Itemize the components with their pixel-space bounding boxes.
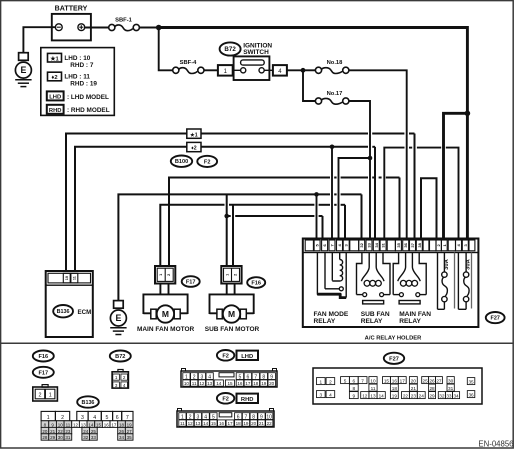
wire bus down to relay holder pin 3 [466,113,469,239]
svg-text:29: 29 [50,435,56,440]
svg-text:E: E [20,65,26,75]
svg-text:4: 4 [93,415,96,421]
svg-text:13: 13 [207,381,213,386]
junction dot ground net to pin 5 [314,192,319,197]
wire ground net branch to pin 5 [316,194,318,239]
svg-text:22: 22 [403,393,409,398]
junction dot at battery bus [156,25,162,31]
svg-text:♦2: ♦2 [191,146,197,152]
svg-text:18: 18 [236,421,242,426]
svg-text:2: 2 [123,375,126,380]
svg-text:11: 11 [72,276,76,280]
svg-text:34: 34 [453,393,459,398]
relay K3 main fan relay [393,253,426,304]
svg-text:6: 6 [116,415,119,421]
svg-text:2: 2 [39,393,42,399]
relay K1 fan mode relay - contact [325,253,343,291]
svg-text:F16: F16 [38,354,48,360]
svg-text:: RHD MODEL: : RHD MODEL [67,107,110,114]
svg-text:F17: F17 [38,370,48,376]
svg-text:3: 3 [319,392,322,397]
svg-text:M: M [228,309,235,319]
main fan motor connector F17 [155,266,175,284]
wire ignition switch pin4 to junction [287,69,303,71]
wire battery - to ground E [23,27,55,53]
svg-text:15: 15 [227,381,233,386]
svg-text:2: 2 [234,274,238,276]
svg-text:30: 30 [448,378,454,383]
svg-text:23: 23 [65,429,71,434]
svg-text:31: 31 [381,242,386,247]
svg-text:15: 15 [384,378,390,383]
svg-text:30: 30 [58,435,64,440]
svg-text:★1: ★1 [190,132,198,138]
svg-text:RHD : 19: RHD : 19 [70,81,97,88]
oval label F16 [247,277,265,288]
svg-text:19: 19 [261,381,267,386]
svg-text:6: 6 [246,374,249,380]
svg-text:24: 24 [83,429,89,434]
svg-text:8: 8 [262,374,265,380]
connector pinout B72 [112,370,128,389]
oval label F27 (schematic) [486,312,505,323]
svg-text:26: 26 [119,429,125,434]
svg-text:LHD: LHD [241,354,253,360]
svg-text:A/C RELAY HOLDER: A/C RELAY HOLDER [365,335,423,341]
label box LHD [237,351,259,361]
svg-text:5: 5 [106,415,109,421]
jumper wire pin 38 to fuse pin 2 [421,178,437,239]
svg-text:9: 9 [270,374,273,380]
svg-text:24: 24 [419,393,425,398]
svg-text:1: 1 [181,414,184,420]
svg-text:B136: B136 [82,400,95,406]
svg-text:29: 29 [429,393,435,398]
svg-text:RHD: RHD [241,397,254,403]
svg-text:10: 10 [184,381,190,386]
svg-text:1: 1 [226,274,230,276]
svg-text:9: 9 [352,393,355,398]
svg-text:SWITCH: SWITCH [243,49,269,56]
relay K2 sub fan relay [357,253,391,304]
relay K1 fan mode relay - armature [317,253,346,298]
svg-text:36: 36 [468,392,474,397]
svg-text:EN-04856: EN-04856 [478,439,513,448]
connector pinout F2 RHD [177,409,274,428]
svg-text:B72: B72 [115,354,125,360]
wire sub fan connector to motor [210,284,254,315]
svg-text:17: 17 [227,421,233,426]
ignition switch connector pin 4 [273,65,287,76]
svg-text:17: 17 [400,378,406,383]
battery B1 [52,4,91,40]
oval label B72 (pinout) [110,351,131,362]
fuse No.18 [315,67,349,73]
wire stub in relay holder 2 [471,253,473,309]
wire bus branch to relay holder pin 1 [444,113,468,239]
svg-text:14: 14 [379,393,385,398]
label MAIN FAN RELAY [399,311,431,325]
wire junction to fuse No.18 [303,69,315,71]
svg-text:: LHD MODEL: : LHD MODEL [67,94,109,101]
jumper wire pin 31 to fuse pin 4 [384,148,458,240]
svg-text:19: 19 [243,421,249,426]
svg-text:16: 16 [104,422,110,427]
separator line between schematic and connector views [1,342,514,344]
svg-text:20: 20 [269,381,275,386]
oval label F17 (pinout) [33,367,54,378]
svg-text:F17: F17 [186,280,196,286]
svg-text:1: 1 [185,374,188,380]
connector pinout F16/F17 [33,385,58,401]
svg-text:12: 12 [362,393,368,398]
junction dot after ignition switch [301,68,306,73]
svg-text:SBF-1: SBF-1 [115,18,133,24]
svg-text:17: 17 [111,422,117,427]
wire net B branch to pin 7 [331,147,333,240]
svg-text:31: 31 [65,435,71,440]
svg-text:7: 7 [126,415,129,421]
svg-text:6: 6 [352,378,355,383]
svg-text:1: 1 [115,375,118,380]
svg-text:1: 1 [47,415,50,421]
wire SBF-1 to junction [139,27,158,29]
svg-text:5: 5 [239,374,242,380]
svg-text:22: 22 [58,429,64,434]
svg-text:SUB FAN: SUB FAN [361,311,390,318]
svg-text:34: 34 [119,435,125,440]
svg-text:11: 11 [66,422,71,427]
label box RHD [237,394,259,404]
svg-text:2: 2 [329,379,332,384]
svg-text:FAN MODE: FAN MODE [314,311,349,318]
wire stub in relay holder 1 [454,253,456,309]
svg-text:★1: ★1 [50,55,59,62]
svg-text:1: 1 [49,393,52,399]
wire ground E to relay holder pin 32 (ground net) [118,194,361,300]
oval label F2 RHD (pinout) [217,393,234,404]
wire No.18 to relay holder pin 36 (down at x=406.7) [349,70,407,239]
svg-text:4: 4 [208,374,211,380]
svg-text:18: 18 [119,422,125,427]
svg-text:B136: B136 [57,309,70,315]
svg-text:18: 18 [253,381,259,386]
svg-text:13: 13 [370,393,376,398]
wire main fan connector to motor [143,284,187,315]
battery + terminal [78,24,85,31]
svg-text:21: 21 [259,421,265,426]
svg-text:25: 25 [423,378,429,383]
svg-text:ECM: ECM [78,309,92,316]
junction dot right bus [465,111,471,117]
svg-text:E: E [115,313,121,323]
svg-text:7: 7 [245,414,248,420]
svg-text:20: 20 [251,421,257,426]
svg-text:19: 19 [392,393,398,398]
svg-text:11: 11 [192,381,197,386]
svg-text:14: 14 [88,422,94,427]
ground E (ECM side) [110,301,126,335]
main battery bus wire (top and right) [159,28,468,114]
svg-text:2: 2 [167,274,171,276]
svg-text:No.17: No.17 [327,91,343,97]
svg-text:7: 7 [361,378,364,383]
svg-text:28: 28 [429,386,435,391]
svg-text:3: 3 [201,374,204,380]
svg-text:11: 11 [371,386,376,391]
wire No.17 to relay holder pin 33 [349,101,370,240]
label SUB FAN RELAY [361,311,390,325]
svg-text:38: 38 [417,242,422,247]
svg-text:13: 13 [81,422,87,427]
svg-text:B100: B100 [175,159,188,165]
oval label B100 [171,156,192,167]
oval label B135 (pinout) [77,396,99,407]
sub fan motor connector F16 [221,266,241,284]
relay holder connector strip [303,239,479,253]
wire SBF-4 to ignition switch pin 1 [204,69,218,71]
svg-text:32: 32 [83,435,89,440]
svg-text:4: 4 [329,392,332,397]
svg-text:32: 32 [359,242,364,247]
svg-text:SBF-4: SBF-4 [180,60,198,66]
fuse No.17 [315,98,349,104]
svg-text:10: 10 [65,276,69,280]
label box *2 on wire [187,142,201,151]
svg-text:34: 34 [374,242,379,247]
svg-text:4: 4 [123,383,126,388]
svg-text:9: 9 [260,414,263,420]
svg-text:22: 22 [267,421,273,426]
wire No.17 branch to pin 4 of fan mode relay [339,158,371,240]
svg-text:17: 17 [245,381,251,386]
svg-text:16: 16 [219,421,225,426]
svg-text:RELAY: RELAY [361,318,383,325]
wire junction down to fuse No.17 [303,70,315,101]
svg-text:33: 33 [367,242,372,247]
svg-text:10: 10 [370,378,376,383]
svg-text:12: 12 [199,381,205,386]
svg-text:F27: F27 [491,316,500,322]
svg-text:25: 25 [91,429,97,434]
svg-text:RELAY: RELAY [399,318,421,325]
oval label B72 (ignition switch) [220,42,241,55]
svg-text:No.18: No.18 [327,60,344,66]
svg-text:10: 10 [58,422,64,427]
connector pinout B135 [41,411,133,440]
svg-text:8: 8 [252,414,255,420]
svg-text:20: 20 [42,429,48,434]
oval label F16 (pinout) [33,351,54,362]
svg-text:F2: F2 [222,353,229,359]
svg-text:23: 23 [411,393,417,398]
svg-text:31: 31 [448,386,454,391]
ground E (battery) [15,53,31,87]
wire ECM pin *2 to sub fan relay coil pin 34 (net B) [75,147,375,271]
svg-text:F2: F2 [204,159,211,165]
svg-text:28: 28 [42,435,48,440]
relay holder pin cells [305,240,475,251]
wire main fan motor - / sub fan motor + to pin 3 (net H5) [160,205,345,266]
svg-text:BATTERY: BATTERY [55,4,88,12]
label IGNITION SWITCH [243,43,272,57]
svg-text:RHD: RHD [49,108,62,114]
svg-text:RELAY: RELAY [314,318,336,325]
wire ECM pin *1 to main fan relay coil pin 37 (net A) [66,134,415,272]
relay K1 fan mode relay - coil [332,253,342,282]
svg-text:8: 8 [352,386,355,391]
wire bus to SBF-4 [159,28,173,71]
oval label F2 LHD (pinout) [217,350,234,361]
svg-text:18: 18 [392,386,398,391]
svg-text:11: 11 [180,421,185,426]
svg-text:5: 5 [212,414,215,420]
svg-text:F16: F16 [251,281,261,287]
svg-text:MAIN FAN MOTOR: MAIN FAN MOTOR [137,326,195,333]
svg-text:12: 12 [188,421,194,426]
junction dot sub fan ground branch [224,214,229,219]
svg-text:30A: 30A [444,258,450,269]
svg-text:5: 5 [344,378,347,383]
oval label F17 [182,276,200,287]
svg-text:F2: F2 [222,396,229,402]
fuse F30A-2 in relay holder [458,253,471,310]
svg-text:15: 15 [211,421,217,426]
svg-text:27: 27 [436,378,442,383]
svg-text:36: 36 [403,242,408,247]
battery - terminal [55,24,62,31]
svg-text:6: 6 [237,414,240,420]
svg-text:14: 14 [203,421,209,426]
svg-text:35: 35 [127,435,133,440]
svg-text:16: 16 [392,378,398,383]
svg-text:21: 21 [411,386,417,391]
fuse SBF-4 [173,67,204,73]
svg-text:10: 10 [266,414,272,420]
svg-text:LHD: LHD [49,95,61,101]
label box *1 on wire [187,129,201,138]
svg-text:♦2: ♦2 [51,75,57,81]
svg-text:14: 14 [216,381,222,386]
svg-text:16: 16 [237,381,243,386]
svg-text:1: 1 [159,274,163,276]
svg-text:B72: B72 [224,46,236,53]
svg-text:21: 21 [50,429,56,434]
svg-text:32: 32 [439,393,445,398]
svg-text:37: 37 [410,242,415,247]
svg-text:35: 35 [396,242,401,247]
fuse F30A-1 in relay holder [438,253,450,310]
svg-text:30A: 30A [466,258,472,269]
svg-text:7: 7 [254,374,257,380]
svg-text:3: 3 [81,415,84,421]
svg-text:3: 3 [115,383,118,388]
svg-text:1: 1 [319,379,322,384]
wire sub fan motor - to ground net and pin 6 (net H6) [227,194,323,266]
svg-text:M: M [162,309,169,319]
svg-text:35: 35 [468,379,474,384]
junction dot net B to fan mode relay coil [330,145,335,150]
svg-text:20: 20 [411,378,417,383]
svg-text:2: 2 [193,374,196,380]
label FAN MODE RELAY [314,311,349,325]
svg-text:4: 4 [204,414,207,420]
motor M1 main fan [151,305,180,322]
svg-text:2: 2 [61,415,64,421]
oval label F2 [197,156,217,167]
legend note box [41,48,115,116]
svg-text:13: 13 [195,421,201,426]
svg-text:SUB FAN MOTOR: SUB FAN MOTOR [205,326,260,333]
svg-text:27: 27 [127,429,133,434]
fuse SBF-1 [109,24,140,30]
svg-text:F27: F27 [389,356,399,362]
svg-text:33: 33 [446,393,452,398]
svg-text:15: 15 [96,422,102,427]
svg-text:33: 33 [91,435,97,440]
wire main fan motor + to pin 35 (net C) [169,178,400,267]
svg-text:3: 3 [197,414,200,420]
wire battery + to SBF-1 [85,27,109,29]
svg-text:2: 2 [189,414,192,420]
svg-text:RHD : 7: RHD : 7 [70,62,94,69]
svg-text:MAIN FAN: MAIN FAN [399,311,431,318]
op-amp ignition switch B72 body [233,56,273,80]
ignition switch connector pin 1 [218,65,233,76]
A/C relay holder box F27 [303,239,479,328]
ECM B135 box [46,271,93,337]
motor M2 sub fan [217,305,246,322]
connector pinout F27 [313,368,482,404]
oval label F27 (pinout) [384,353,404,364]
connector pinout F2 LHD [181,369,277,388]
junction dot No.17 branch [368,156,373,161]
oval label B135 (ECM) [53,305,73,317]
svg-text:19: 19 [127,422,133,427]
svg-text:12: 12 [73,422,79,427]
svg-text:26: 26 [429,378,435,383]
